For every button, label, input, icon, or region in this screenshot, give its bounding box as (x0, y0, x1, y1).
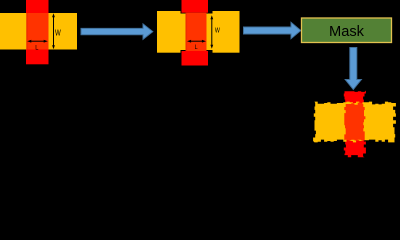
printed wafer: diffusion rough (yellow) (313, 102, 396, 143)
svg-text:L: L (35, 45, 39, 52)
svg-text:W: W (55, 29, 61, 38)
printed wafer: poly bar rough (red) (343, 91, 366, 158)
layout 1: W dimension arrow (52, 13, 55, 49)
Mask box (302, 18, 392, 43)
OPC layout: right diffusion with serifs (yellow) (213, 11, 240, 53)
OPC layout: left diffusion inner strip (yellow) (181, 14, 186, 51)
layout 1: poly gate bar (red) (26, 0, 49, 64)
arrow 3 (Mask to wafer) (345, 48, 361, 90)
arrow 2 (OPC layout to Mask) (244, 22, 301, 38)
OPC layout: left diffusion with serifs (yellow) (157, 11, 181, 53)
layout 1: diffusion (yellow) (0, 13, 77, 50)
layout 1: L dimension arrow (27, 40, 48, 43)
OPC layout: poly hammerhead bottom (red) (182, 51, 209, 66)
svg-text:W: W (215, 26, 221, 35)
printed wafer: gate overlap rough (orange) (344, 103, 365, 141)
svg-text:Mask: Mask (329, 23, 364, 40)
OPC layout: L dimension arrow (187, 40, 206, 43)
arrow 1 (layout to OPC layout) (81, 24, 153, 39)
OPC layout: poly hammerhead top (red) (182, 0, 209, 13)
OPC layout: right diffusion inner strip (yellow) (207, 14, 213, 51)
OPC layout: gate overlap (orange) (186, 13, 207, 51)
layout 1: gate/diffusion overlap (orange) (26, 13, 48, 50)
OPC layout: W dimension arrow (210, 15, 213, 49)
